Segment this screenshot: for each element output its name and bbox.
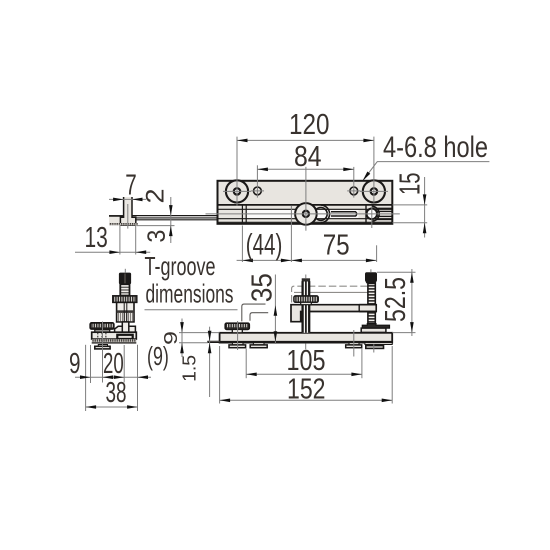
svg-text:105: 105 bbox=[287, 345, 326, 377]
svg-text:7: 7 bbox=[125, 169, 137, 201]
svg-text:75: 75 bbox=[323, 229, 350, 261]
svg-text:dimensions: dimensions bbox=[146, 279, 234, 309]
svg-text:(44): (44) bbox=[246, 228, 282, 261]
svg-text:152: 152 bbox=[287, 373, 326, 405]
svg-text:35: 35 bbox=[246, 273, 278, 302]
svg-text:9: 9 bbox=[161, 331, 181, 345]
svg-text:T-groove: T-groove bbox=[145, 251, 216, 281]
svg-text:2: 2 bbox=[142, 189, 170, 204]
svg-text:15: 15 bbox=[395, 173, 427, 196]
svg-text:3: 3 bbox=[143, 230, 171, 243]
svg-text:13: 13 bbox=[85, 222, 108, 254]
svg-text:38: 38 bbox=[106, 377, 127, 409]
svg-text:84: 84 bbox=[294, 141, 322, 173]
svg-text:9: 9 bbox=[69, 348, 81, 380]
svg-text:52.5: 52.5 bbox=[380, 277, 412, 322]
svg-text:1.5: 1.5 bbox=[180, 355, 200, 382]
svg-text:120: 120 bbox=[289, 109, 330, 141]
svg-text:4-6.8 hole: 4-6.8 hole bbox=[383, 131, 488, 164]
svg-text:20: 20 bbox=[103, 348, 124, 380]
